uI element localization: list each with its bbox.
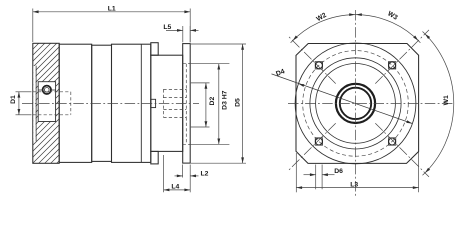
svg-text:D2: D2 (209, 97, 216, 106)
svg-text:D3 H7: D3 H7 (221, 90, 228, 109)
svg-text:L1: L1 (108, 5, 116, 12)
svg-text:L4: L4 (171, 184, 179, 191)
svg-text:L2: L2 (201, 171, 209, 178)
svg-text:L3: L3 (350, 181, 358, 188)
svg-text:L5: L5 (163, 24, 171, 31)
svg-text:W1: W1 (443, 95, 450, 105)
svg-text:D5: D5 (234, 98, 241, 107)
svg-text:D1: D1 (10, 95, 17, 104)
svg-text:D6: D6 (334, 168, 343, 175)
